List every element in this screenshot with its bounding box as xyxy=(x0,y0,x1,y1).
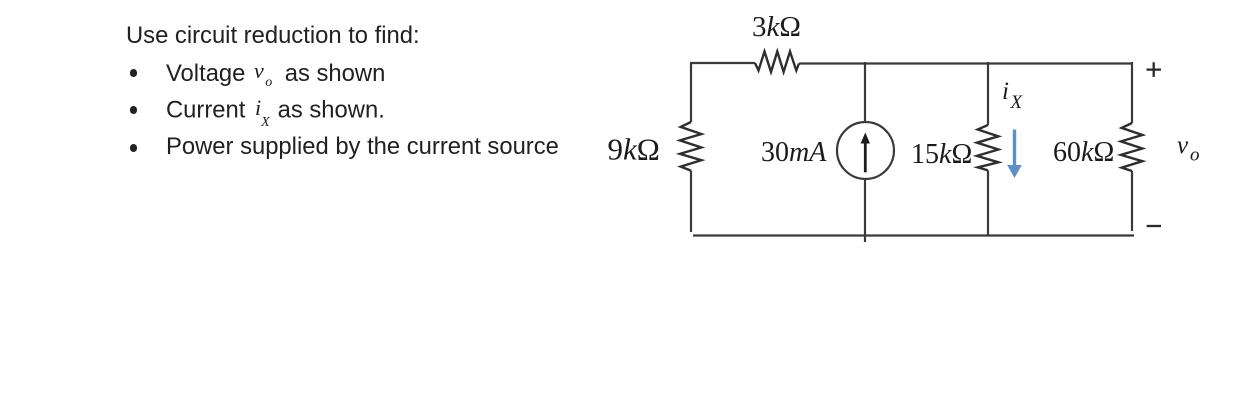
bullet 2 text xyxy=(166,97,385,130)
svg-text:v: v xyxy=(1177,132,1189,159)
label 9kΩ xyxy=(608,132,660,167)
resistor 60kΩ xyxy=(1121,123,1143,171)
resistor 15kΩ xyxy=(977,125,999,170)
wire 15k branch vertical lower xyxy=(987,170,989,235)
bullet 2 xyxy=(130,106,138,114)
resistor 3kΩ xyxy=(755,52,799,73)
title line xyxy=(126,24,420,48)
bullet 3 text xyxy=(166,135,559,159)
wire top-left horizontal (node A to R 3k) xyxy=(691,62,755,64)
current source I1 circle xyxy=(837,122,894,179)
label 15kΩ xyxy=(911,139,972,170)
wire current-source vertical upper xyxy=(864,62,866,122)
wire bottom horizontal xyxy=(693,234,1134,236)
svg-text:60kΩ: 60kΩ xyxy=(1053,137,1114,168)
svg-text:15kΩ: 15kΩ xyxy=(911,139,972,170)
label 60kΩ xyxy=(1053,137,1114,168)
label 3kΩ xyxy=(752,11,801,43)
plus sign (vo polarity) xyxy=(1147,62,1162,77)
label 30mA xyxy=(761,137,827,168)
label vo xyxy=(1177,132,1200,166)
current source arrow xyxy=(861,133,870,173)
minus sign (vo polarity) xyxy=(1147,225,1161,227)
wire left vertical upper xyxy=(690,62,692,122)
bullet 1 text xyxy=(166,60,385,90)
wire 15k branch vertical upper xyxy=(987,62,989,125)
label iX xyxy=(1002,78,1024,113)
bullet 1 xyxy=(130,69,138,77)
wire left vertical lower xyxy=(690,171,692,232)
wire 60k branch vertical lower xyxy=(1131,171,1133,231)
wire top horizontal (R 3k to node B/C/D) xyxy=(799,62,1132,64)
svg-text:i: i xyxy=(1002,78,1009,105)
wire current-source vertical lower xyxy=(864,179,866,242)
current annotation arrow iX (blue) xyxy=(1007,130,1022,179)
resistor 9kΩ xyxy=(680,122,702,171)
svg-text:o: o xyxy=(1190,145,1200,166)
svg-text:X: X xyxy=(1010,92,1024,113)
wire 60k branch vertical upper xyxy=(1131,62,1133,123)
svg-text:9kΩ: 9kΩ xyxy=(608,132,660,167)
svg-text:3kΩ: 3kΩ xyxy=(752,11,801,43)
bullet 3 xyxy=(130,144,138,152)
svg-text:30mA: 30mA xyxy=(761,137,827,168)
